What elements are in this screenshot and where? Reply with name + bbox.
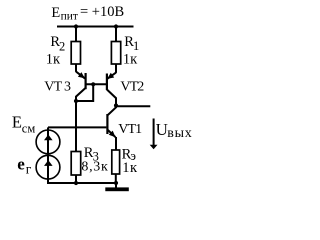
svg-text:Е: Е <box>12 113 22 132</box>
transistor VT1 emitter arrow (NPN) <box>109 131 116 138</box>
label Есм <box>12 113 35 136</box>
wire top supply rail <box>57 26 134 28</box>
node junction dot above R2 <box>74 24 78 28</box>
transistor VT2 emitter line <box>107 73 116 79</box>
wire R3 to bottom rail <box>75 175 77 183</box>
wire VT3 base-collector tie <box>76 84 93 101</box>
node ground junction dot <box>114 181 118 185</box>
transistor VT1 emitter line <box>108 130 116 137</box>
wire rail to R1 <box>115 27 117 42</box>
svg-text:1к: 1к <box>123 52 138 68</box>
resistor R1 <box>111 42 120 65</box>
svg-text:VT1: VT1 <box>118 122 142 137</box>
ground stub <box>115 183 117 188</box>
wire VT3 collector down to R3 <box>75 101 77 152</box>
node VT3 collector dot <box>74 99 78 103</box>
svg-text:8,3к: 8,3к <box>81 160 108 175</box>
wire R1 to VT2 emitter <box>115 64 117 73</box>
label R3 <box>84 145 99 164</box>
svg-text:U: U <box>156 120 168 139</box>
svg-text:1к: 1к <box>122 160 138 176</box>
wire VT1 base line to sources <box>48 126 106 128</box>
node junction dot above R1 <box>114 24 118 28</box>
transistor VT2 base bar <box>106 74 108 91</box>
transistor VT2 collector line <box>107 90 116 106</box>
wire R2 to VT3 emitter <box>75 64 77 72</box>
wire Rэ to bottom rail <box>115 174 117 183</box>
transistor VT2 emitter arrow (PNP) <box>107 73 114 79</box>
transistor VT3 base bar <box>84 73 86 89</box>
supply label Епит = +10В <box>51 4 124 23</box>
svg-text:г: г <box>26 161 32 176</box>
arrow ег EMF <box>44 160 53 166</box>
svg-text:е: е <box>17 155 25 174</box>
source Есм circle <box>36 130 60 154</box>
node base tie dot <box>91 82 95 86</box>
transistor VT1 collector line <box>108 106 116 116</box>
label R2 <box>50 34 65 53</box>
svg-text:вых: вых <box>167 126 192 141</box>
node output junction dot <box>114 103 118 107</box>
wire bottom rail <box>48 182 116 184</box>
label R1 <box>124 34 139 53</box>
svg-text:= +10В: = +10В <box>80 4 124 20</box>
svg-text:см: см <box>22 121 36 135</box>
wire VT1 emitter to Rэ <box>115 137 117 150</box>
wire output node to Uвых <box>116 105 150 107</box>
svg-text:пит: пит <box>61 11 78 23</box>
wire VT3 base to VT2 base <box>86 83 107 85</box>
resistor R3 <box>71 152 81 176</box>
svg-text:VT2: VT2 <box>120 80 144 95</box>
transistor VT3 emitter arrow (PNP) <box>78 72 85 78</box>
wire through sources <box>47 130 49 184</box>
svg-text:1к: 1к <box>46 52 61 68</box>
ground bar <box>105 187 129 191</box>
node R3 bottom dot <box>74 181 78 185</box>
transistor VT1 base bar <box>106 114 108 134</box>
arrow Есм EMF <box>44 135 53 141</box>
label ег <box>17 155 32 177</box>
wire Есм source to VT1 base (vertical drop) <box>47 127 49 130</box>
label Rэ <box>122 146 137 163</box>
resistor R2 <box>71 42 80 65</box>
svg-text:Е: Е <box>51 5 60 21</box>
svg-text:VT 3: VT 3 <box>44 79 71 94</box>
arrow Uвых direction <box>153 119 155 146</box>
label Uвых <box>156 120 193 141</box>
transistor VT3 collector line <box>76 88 86 101</box>
transistor VT3 emitter line <box>76 72 85 79</box>
wire rail to R2 <box>75 27 77 42</box>
source ег circle <box>36 155 60 179</box>
resistor Rэ <box>112 150 120 174</box>
